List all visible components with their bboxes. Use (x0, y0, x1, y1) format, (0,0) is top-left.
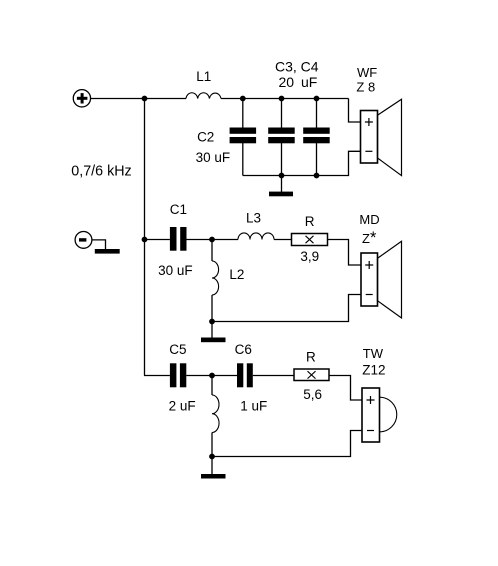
wire cap C2 top drop (242, 99, 244, 129)
inductor L1 (186, 93, 221, 99)
node bus C1 (142, 237, 148, 243)
capacitor C1 (170, 227, 187, 251)
wire top rail L1 to corner (221, 98, 349, 100)
node L1 out (240, 96, 246, 102)
speaker WF box (361, 111, 378, 164)
svg-text:C2: C2 (197, 129, 214, 144)
ground bottom (201, 474, 226, 479)
capacitor C3 (268, 128, 295, 144)
node C1 out (209, 237, 215, 243)
wire C6 to R2 (253, 375, 294, 377)
svg-text:2 uF: 2 uF (169, 399, 196, 414)
wire ground stem bottom (211, 457, 213, 475)
terminal minus input (75, 232, 92, 249)
node C4 bottom (314, 173, 320, 179)
svg-text:C6: C6 (235, 342, 252, 357)
wire ground stem mid (211, 322, 213, 338)
wire C5 to node (186, 375, 237, 377)
terminal plus input (73, 90, 90, 107)
svg-text:5,6: 5,6 (303, 387, 322, 402)
node bus top (142, 96, 148, 102)
svg-text:1 uF: 1 uF (240, 399, 267, 414)
svg-text:TW: TW (363, 346, 384, 361)
wire cap C4 top drop (316, 99, 318, 129)
capacitor C5 (170, 363, 186, 387)
wire minus input lead (92, 240, 106, 249)
resistor R2 5,6 (294, 369, 329, 381)
wire cap C3 bottom drop (281, 143, 283, 176)
speaker MD cone (378, 241, 402, 318)
node C3 top (279, 96, 285, 102)
svg-text:Z 8: Z 8 (356, 79, 375, 94)
inductor unlabeled tweeter shunt coil (212, 395, 219, 433)
svg-text:L2: L2 (229, 267, 244, 282)
wire corner down to WF plus lead (349, 99, 361, 123)
wire C1 row from bus (145, 239, 170, 241)
wire L3 to R1 (274, 239, 292, 241)
svg-text:20 uF: 20 uF (278, 74, 317, 90)
svg-text:MD: MD (359, 212, 379, 227)
speaker MD box (361, 253, 378, 306)
wire cap C2 bottom drop (242, 143, 244, 176)
wire cap C4 bottom drop (316, 143, 318, 176)
wire bottom rail of cap bank (243, 151, 361, 175)
svg-text:L3: L3 (246, 210, 261, 225)
wire R1 to MD plus lead (328, 240, 362, 266)
wire cap C3 top drop (281, 99, 283, 129)
wire L2 bottom stub (211, 295, 213, 322)
svg-text:L1: L1 (196, 69, 211, 84)
wire ground stem under caps (281, 176, 283, 193)
svg-text:Z12: Z12 (362, 363, 385, 378)
resistor R1 3,9 (292, 234, 328, 246)
junction dots (142, 96, 320, 460)
node coil bottom (209, 454, 215, 460)
inductor L2 (212, 261, 219, 295)
wire bus corner to C5 (144, 375, 170, 377)
svg-text:3,9: 3,9 (300, 249, 319, 264)
capacitor C4 (303, 128, 330, 144)
wire main vertical bus (144, 99, 146, 376)
wire TW minus lead to rail (212, 431, 362, 457)
speaker TW box (362, 388, 380, 442)
ground under L2 (201, 338, 226, 343)
svg-text:C3, C4: C3, C4 (275, 58, 319, 74)
node C4 top (314, 96, 320, 102)
svg-text:Z*: Z* (362, 229, 377, 247)
wire R2 to TW plus lead (329, 376, 362, 401)
svg-text:WF: WF (357, 65, 377, 80)
wire coil to rail (211, 433, 213, 457)
svg-text:R: R (305, 214, 315, 229)
svg-text:R: R (306, 349, 316, 364)
node C3 bottom (279, 173, 285, 179)
speaker TW dome (380, 397, 397, 432)
node L2 bottom (209, 319, 215, 325)
capacitor C6 (237, 363, 253, 387)
ground under cap bank (269, 192, 293, 197)
wire node to coil (211, 376, 213, 396)
ground at minus input (95, 249, 120, 254)
svg-text:30 uF: 30 uF (158, 263, 193, 278)
inductor L3 (238, 233, 274, 240)
wire L2 top stub (211, 240, 213, 262)
node C5 out (209, 373, 215, 379)
wire top rail from + terminal to L1 (91, 98, 186, 100)
svg-text:30 uF: 30 uF (196, 150, 231, 165)
wire MD minus lead to rail (212, 295, 361, 322)
svg-text:C1: C1 (170, 202, 187, 217)
svg-text:0,7/6 kHz: 0,7/6 kHz (71, 164, 131, 180)
speaker WF cone (378, 99, 402, 175)
wire C1 to node (187, 239, 239, 241)
svg-text:C5: C5 (169, 342, 186, 357)
capacitor C2 (230, 128, 257, 144)
